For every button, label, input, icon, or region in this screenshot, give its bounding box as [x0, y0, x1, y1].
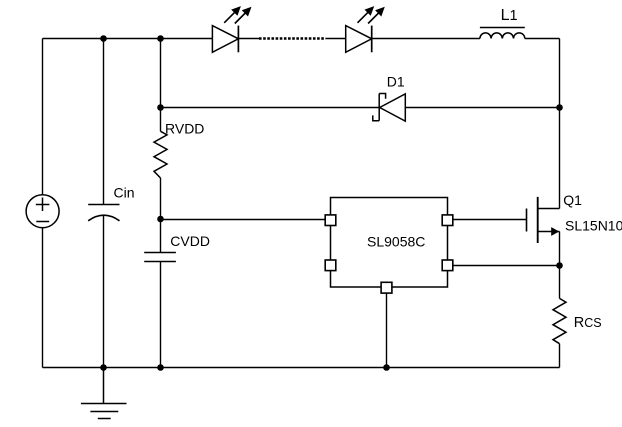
- svg-text:RVDD: RVDD: [165, 121, 204, 137]
- svg-text:SL9058C: SL9058C: [367, 233, 425, 249]
- node dot ground rail Cin: [100, 364, 107, 371]
- resistor RVDD: [154, 131, 167, 178]
- svg-text:L1: L1: [501, 7, 518, 24]
- capacitor CVDD: [144, 253, 176, 262]
- node dot source/Rcs: [556, 262, 563, 269]
- LED D3: [346, 6, 385, 52]
- wire dashed LED string: [259, 37, 326, 40]
- wire left vertical upper: [42, 39, 44, 195]
- wire IC to source node: [453, 265, 560, 267]
- voltage source V1: [26, 195, 59, 228]
- svg-text:D1: D1: [387, 74, 405, 90]
- wire left vertical lower: [42, 228, 44, 368]
- wire D1 to right vertical: [405, 107, 559, 109]
- wire CVDD to bottom: [160, 262, 162, 368]
- inductor L1: [480, 28, 525, 39]
- node dot RVDD/D1: [157, 104, 164, 111]
- IC U1 pin bottom: [381, 282, 392, 293]
- wire bottom rail: [43, 367, 560, 369]
- wire L1 to corner: [525, 38, 560, 40]
- transistor Q1: [527, 197, 560, 243]
- svg-text:SL15N10: SL15N10: [565, 217, 622, 233]
- svg-text:Q1: Q1: [563, 192, 582, 208]
- wire dashes to LED2: [326, 38, 346, 40]
- node dot top Cin: [100, 35, 107, 42]
- wire RVDD to CVDD: [160, 178, 162, 253]
- wire VDD to IC pin: [161, 219, 326, 221]
- LED D2: [212, 6, 251, 52]
- wire Cin branch lower: [103, 216, 105, 368]
- node dot ground rail CVDD: [157, 364, 164, 371]
- diode D1: [373, 94, 406, 122]
- IC U1 SL9058C body: [331, 198, 448, 288]
- wire LED1 to dashes: [238, 38, 260, 40]
- wire IC gate drive: [453, 219, 527, 221]
- wire source to Rcs: [559, 232, 561, 299]
- IC U1 pin right-bottom: [442, 260, 453, 271]
- svg-text:RCS: RCS: [574, 315, 602, 331]
- wire IC bottom pin to ground rail: [386, 293, 388, 367]
- resistor Rcs: [553, 298, 566, 343]
- wire right vertical to drain: [559, 39, 561, 209]
- node dot top RVDD: [157, 35, 164, 42]
- node dot D1/drain: [556, 104, 563, 111]
- IC U1 pin left-top: [325, 215, 336, 226]
- ground: [81, 368, 127, 419]
- wire Cin branch upper: [103, 39, 105, 205]
- wire D1 branch: [161, 107, 380, 109]
- wire LED2 to L1: [372, 38, 480, 40]
- capacitor Cin: [88, 205, 119, 221]
- node dot VDD: [157, 216, 164, 223]
- wire RVDD branch upper: [160, 39, 162, 132]
- wire top-left horizontal: [43, 38, 213, 40]
- svg-text:CVDD: CVDD: [170, 233, 210, 249]
- IC U1 pin left-bottom: [325, 260, 336, 271]
- wire Rcs to bottom: [559, 344, 561, 368]
- IC U1 pin right-top: [442, 215, 453, 226]
- node dot ground rail IC: [383, 364, 390, 371]
- svg-text:Cin: Cin: [114, 185, 135, 201]
